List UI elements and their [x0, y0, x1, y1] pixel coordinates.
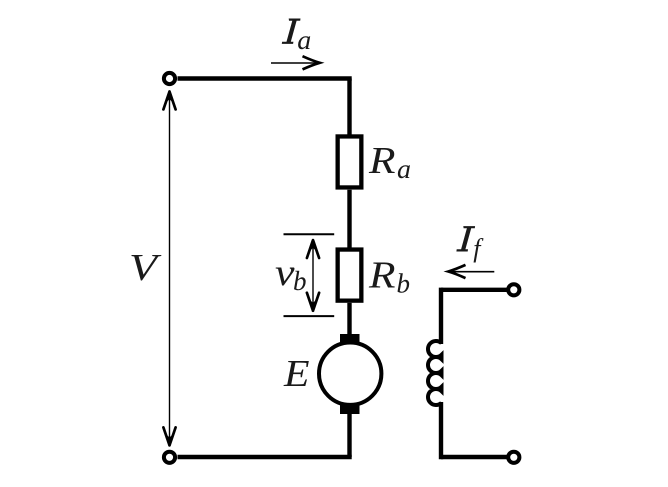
wire between Ra and Rb	[347, 190, 351, 249]
wire armature branch upper	[347, 79, 351, 137]
current arrow If	[450, 271, 495, 273]
wire field lower vertical	[439, 402, 443, 459]
terminal bottom-left	[164, 452, 175, 463]
current arrow Ia	[271, 62, 319, 64]
arrowhead V top	[163, 92, 175, 110]
wire top horizontal	[178, 76, 352, 80]
wire field top horizontal	[441, 288, 507, 292]
svg-text:V: V	[129, 247, 162, 289]
terminal field bottom	[508, 452, 519, 463]
wire bottom horizontal	[178, 455, 352, 459]
motor brush bottom	[340, 405, 360, 415]
terminal field top	[508, 284, 519, 295]
svg-text:a: a	[297, 25, 311, 55]
resistor Ra	[338, 136, 362, 187]
arrowhead vb top	[307, 240, 319, 258]
vb measure bar bottom	[284, 315, 335, 317]
arrowhead V bottom	[163, 427, 175, 445]
voltage arrow V	[169, 93, 171, 445]
label If	[456, 226, 475, 251]
motor brush top	[340, 334, 360, 344]
wire motor to bottom	[347, 412, 351, 457]
terminal top-left	[164, 73, 175, 84]
wire field upper vertical	[439, 288, 443, 344]
label Ia	[282, 19, 301, 44]
vb measure bar top	[284, 233, 335, 235]
resistor Rb	[338, 250, 362, 301]
svg-text:E: E	[283, 353, 310, 395]
arrowhead vb bottom	[307, 293, 319, 311]
inductor Lf coil	[428, 341, 442, 405]
motor E circle	[319, 343, 381, 405]
wire field bottom horizontal	[441, 455, 507, 459]
vb arrow	[312, 242, 314, 309]
wire between Rb and motor	[347, 303, 351, 336]
